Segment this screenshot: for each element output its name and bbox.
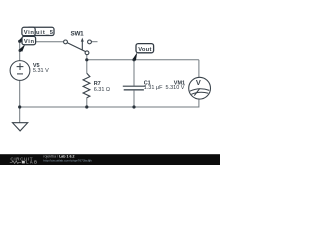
- ground: [13, 123, 28, 131]
- svg-text:5.31 V: 5.31 V: [33, 68, 49, 74]
- resistor R7: [83, 73, 90, 98]
- svg-text:Vin: Vin: [24, 30, 35, 36]
- wire: VM1 bottom to bottom rail: [198, 98, 200, 107]
- capacitor C1: [123, 85, 146, 87]
- wire: R7 top lead: [86, 60, 88, 74]
- flag tail upper Vin: [19, 35, 24, 42]
- wire: C1 bottom lead: [133, 90, 135, 107]
- wire: C1 top lead: [133, 60, 135, 86]
- wire: bottom rail: [20, 106, 199, 108]
- flag Vin (lower): [22, 36, 36, 45]
- junction C1 top / Vout: [132, 58, 135, 61]
- junction V5 bottom rail: [18, 105, 21, 108]
- svg-text:http://circuitlab.com/c/rge767: http://circuitlab.com/c/rge7673bc8jk: [43, 158, 92, 162]
- wire: top rail: [87, 59, 199, 61]
- wire: SW1 right stub (open): [92, 41, 98, 43]
- SW1 arrowhead: [81, 38, 84, 42]
- flag tail Vout: [133, 52, 138, 60]
- wire: V5 bottom lead down to ground: [19, 80, 21, 123]
- svg-text:Vout: Vout: [138, 47, 151, 53]
- wire: SW1 lever end stub to top rail: [86, 55, 88, 60]
- switch SW1: [64, 40, 92, 55]
- svg-text:SW1: SW1: [71, 31, 85, 38]
- junction lower Vin attach: [19, 49, 22, 52]
- wire: Vin node horizontal to SW1 left terminal: [20, 41, 64, 43]
- wire: V5 top lead up to Vin node: [19, 41, 21, 61]
- junction C1 bottom: [132, 105, 135, 108]
- voltmeter VM1: [189, 77, 211, 99]
- svg-text:6.31 Ω: 6.31 Ω: [94, 87, 110, 93]
- junction node Vin: [18, 40, 21, 43]
- svg-text:uit_5: uit_5: [36, 30, 54, 36]
- svg-text:LAB: LAB: [26, 160, 37, 165]
- svg-text:5.310 V: 5.310 V: [166, 85, 185, 91]
- svg-text:Vin: Vin: [24, 39, 35, 45]
- junction R7 bottom: [85, 105, 88, 108]
- junction R7 top: [85, 58, 88, 61]
- flag uit_5 (partially hidden): [27, 27, 54, 36]
- voltage source V5: [10, 61, 30, 81]
- svg-text:1.31 μF: 1.31 μF: [144, 85, 163, 91]
- wire: R7 bottom lead: [86, 98, 88, 107]
- flag tail lower Vin: [19, 44, 25, 52]
- wire: right riser to VM1 top: [198, 60, 200, 78]
- footer bar: [0, 154, 220, 165]
- svg-text:V: V: [196, 78, 201, 87]
- flag Vout: [136, 44, 154, 53]
- flag Vin (upper): [22, 27, 35, 36]
- CircuitLab logo zigzag + LAB: [10, 161, 21, 164]
